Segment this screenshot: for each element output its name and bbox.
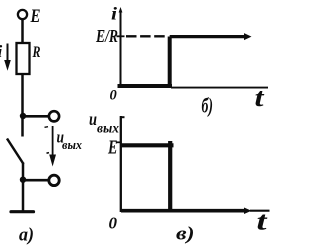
speck below output terminal <box>45 126 49 129</box>
svg-text:i: i <box>111 4 117 24</box>
wire: resistor to switch contact <box>21 74 24 137</box>
wire: switch to ground <box>22 163 25 212</box>
svg-text:0: 0 <box>109 214 118 233</box>
u=0 baseline thick with arrow <box>121 209 245 213</box>
svg-text:E/R: E/R <box>95 26 118 46</box>
arrow u_vyh <box>52 126 54 155</box>
pulse falling edge <box>168 141 172 210</box>
resistor R <box>17 43 30 74</box>
t axis tail (graph v) <box>250 210 270 212</box>
wire: junction to upper output terminal <box>23 115 49 118</box>
svg-text:0: 0 <box>110 88 117 104</box>
current step vertical <box>168 37 172 87</box>
pulse top u=E <box>121 143 174 147</box>
svg-text:R: R <box>32 44 41 61</box>
svg-text:E: E <box>30 6 41 27</box>
svg-text:u: u <box>89 109 97 129</box>
wire: terminal E to resistor <box>21 20 24 44</box>
current arrow i <box>7 44 9 63</box>
switch blade <box>7 139 24 165</box>
current i=0 segment (thick baseline) <box>118 84 173 88</box>
junction (upper output node) <box>20 113 26 119</box>
dashed level line <box>126 35 165 37</box>
axis i (vertical, graph b) <box>120 10 122 87</box>
svg-text:б): б) <box>202 94 214 118</box>
wire: junction to lower output terminal <box>23 179 49 182</box>
terminal E (top circle) <box>18 10 27 19</box>
terminal out upper circle <box>49 111 59 121</box>
svg-text:а): а) <box>19 225 34 246</box>
svg-text:в): в) <box>176 224 195 245</box>
current i=E/R line with arrow <box>170 35 244 38</box>
svg-text:вых: вых <box>97 122 119 137</box>
t axis (graph b) <box>171 87 268 89</box>
junction (lower output node) <box>20 177 26 183</box>
speck left of u_vyh arrowhead <box>47 152 50 155</box>
svg-text:t: t <box>257 207 268 236</box>
svg-text:i: i <box>0 42 3 61</box>
svg-text:вых: вых <box>62 137 82 152</box>
svg-text:E: E <box>107 137 117 159</box>
tick at E/R level <box>117 35 125 37</box>
axis u_vyh (vertical, graph v) <box>120 116 122 212</box>
terminal out lower circle <box>49 175 59 185</box>
ground bar <box>11 210 34 213</box>
svg-text:t: t <box>255 83 265 112</box>
tick at E level <box>117 141 122 143</box>
